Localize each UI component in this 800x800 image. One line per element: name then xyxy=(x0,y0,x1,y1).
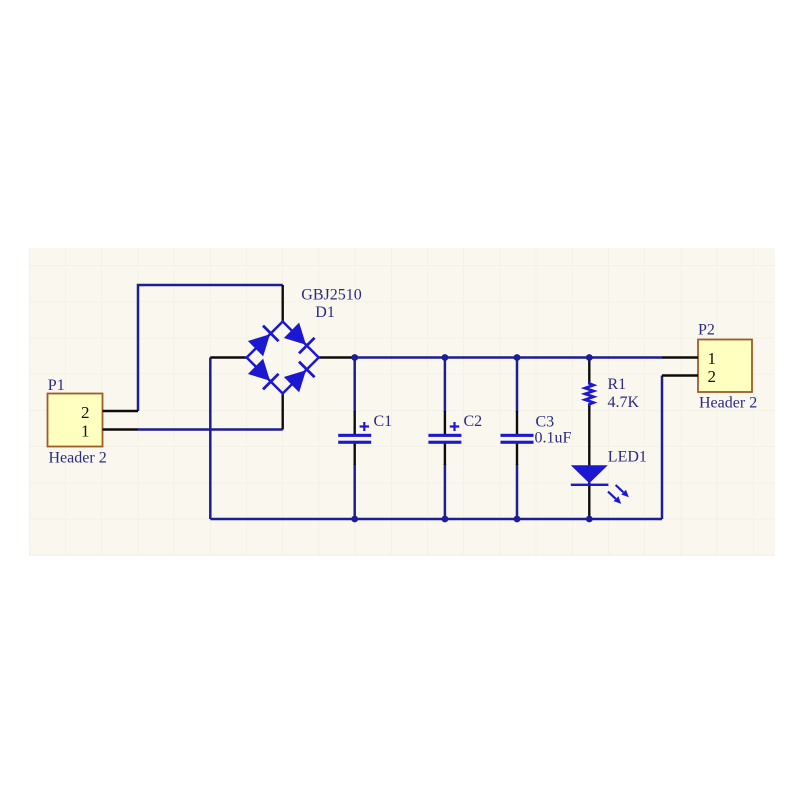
schematic sheet background xyxy=(29,248,775,556)
D1 diode upper-right xyxy=(284,323,315,354)
svg-text:Header 2: Header 2 xyxy=(49,450,107,467)
D1 diode lower-right xyxy=(284,362,315,393)
bridge rectifier D1 GBJ2510 xyxy=(210,285,355,430)
junction C1 bottom xyxy=(351,516,358,523)
LED1 light arrow 2 xyxy=(608,492,621,504)
wire C1 top xyxy=(353,358,356,413)
wire D1 left vertex to bottom bus (net DC-) xyxy=(209,358,212,520)
svg-text:P1: P1 xyxy=(48,377,65,394)
junction C2 bottom xyxy=(442,516,449,523)
C2 pin bottom xyxy=(444,444,446,466)
C1 plus sign xyxy=(360,422,369,431)
D1 pin top (AC) xyxy=(282,285,284,322)
R1 zigzag body xyxy=(585,382,594,407)
D1 diode lower-left xyxy=(248,359,279,390)
svg-text:2: 2 xyxy=(81,403,90,422)
wire P1 pin2 to D1 top (net AC1) xyxy=(138,285,283,411)
svg-text:C3: C3 xyxy=(536,414,555,431)
wire bottom bus DC- xyxy=(210,518,662,521)
D1 diamond outline xyxy=(247,322,319,394)
C3 pin bottom xyxy=(516,444,518,466)
C1 pin top xyxy=(354,411,356,434)
svg-text:2: 2 xyxy=(708,367,717,386)
P2 pin 1 xyxy=(662,349,716,368)
LED1 light arrow 1 xyxy=(616,485,629,497)
D1 pin bottom (AC) xyxy=(282,394,284,430)
C2 plus sign xyxy=(450,422,459,431)
junction C1 top xyxy=(351,354,358,361)
junction LED1 bottom xyxy=(586,516,593,523)
junction C3 bottom xyxy=(514,516,521,523)
wire C3 bottom xyxy=(516,464,519,519)
svg-text:Header 2: Header 2 xyxy=(699,395,757,412)
LED1 cathode bar xyxy=(571,484,609,486)
wire top bus DC+ xyxy=(355,356,662,359)
LED LED1 xyxy=(571,465,629,519)
C3 pin top xyxy=(516,411,518,434)
svg-text:4.7K: 4.7K xyxy=(608,394,640,411)
connector P1 (Header 2) body xyxy=(48,394,103,447)
D1 diode upper-left xyxy=(248,326,279,357)
LED1 triangle xyxy=(571,465,608,483)
svg-text:LED1: LED1 xyxy=(608,449,647,466)
junction C3 top xyxy=(514,354,521,361)
resistor R1 xyxy=(585,358,594,466)
P1 pin 2 xyxy=(81,403,138,422)
C2 plates xyxy=(428,434,461,437)
junction C2 top xyxy=(442,354,449,361)
R1 pin top xyxy=(588,358,590,383)
capacitor C3 xyxy=(501,411,534,465)
C2 pin top xyxy=(444,411,446,434)
wire C1 bottom xyxy=(353,464,356,519)
D1 pin right (plus) xyxy=(319,356,355,358)
D1 pin left (minus) xyxy=(210,356,246,358)
svg-text:0.1uF: 0.1uF xyxy=(535,430,572,447)
svg-text:C2: C2 xyxy=(464,413,483,430)
svg-text:P2: P2 xyxy=(698,322,715,339)
capacitor C2 xyxy=(428,411,461,465)
P2 pin 2 xyxy=(662,367,716,386)
wire P1 pin1 to D1 bottom (net AC2) xyxy=(138,428,283,431)
svg-text:D1: D1 xyxy=(315,304,335,321)
capacitor C1 xyxy=(338,411,371,465)
wire C3 top xyxy=(516,358,519,413)
svg-text:1: 1 xyxy=(708,349,717,368)
R1 pin bottom xyxy=(588,406,590,465)
P1 pin 1 xyxy=(81,421,138,440)
junction R1 top xyxy=(586,354,593,361)
LED1 pin through xyxy=(588,465,590,519)
wire P2 pin2 to bottom bus xyxy=(661,376,664,520)
svg-text:R1: R1 xyxy=(608,376,627,393)
wire C2 top xyxy=(444,358,447,413)
svg-text:GBJ2510: GBJ2510 xyxy=(301,287,361,304)
C3 plates xyxy=(501,434,534,437)
connector P2 (Header 2) body xyxy=(698,340,752,393)
C1 pin bottom xyxy=(354,444,356,466)
svg-text:C1: C1 xyxy=(374,413,393,430)
svg-text:1: 1 xyxy=(81,421,90,440)
C1 plates xyxy=(338,434,371,437)
wire C2 bottom xyxy=(444,464,447,519)
